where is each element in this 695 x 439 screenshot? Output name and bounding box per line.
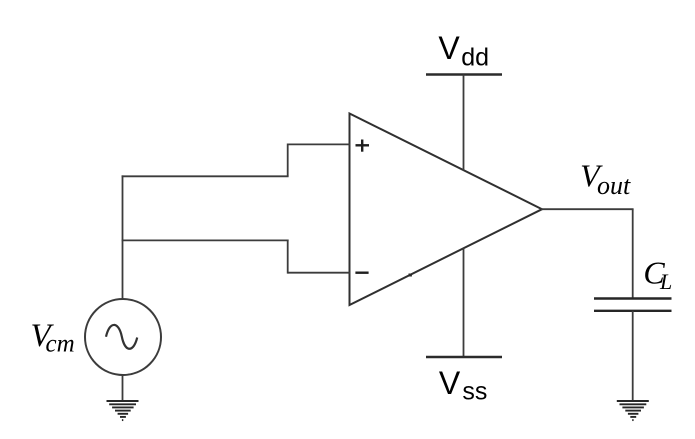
node artifact on lower edge bbox=[409, 274, 412, 277]
wire output vertical down to capacitor bbox=[632, 209, 634, 297]
svg-text:dd: dd bbox=[461, 44, 489, 72]
wire source to ground bbox=[122, 375, 124, 401]
svg-text:cm: cm bbox=[46, 331, 75, 358]
ground (load) bbox=[617, 401, 649, 420]
wire lower horizontal from source bbox=[122, 239, 289, 241]
svg-text:ss: ss bbox=[462, 378, 487, 406]
pin + (non-inverting input marker) bbox=[356, 140, 370, 152]
svg-text:V: V bbox=[439, 365, 461, 401]
wire capacitor to ground bbox=[632, 311, 634, 401]
wire + input vertical jog bbox=[287, 144, 289, 177]
Vss supply rail bar bbox=[426, 356, 502, 358]
capacitor CL top plate bbox=[594, 297, 672, 299]
wire + input horizontal into op-amp bbox=[288, 143, 350, 145]
wire left vertical from source bbox=[122, 175, 124, 299]
ground (source) bbox=[107, 401, 139, 420]
wire - input vertical jog bbox=[287, 240, 289, 274]
svg-text:L: L bbox=[659, 269, 672, 294]
wire - input horizontal into op-amp bbox=[288, 272, 350, 274]
op-amp U1 bbox=[350, 114, 543, 306]
voltage source Vcm bbox=[85, 299, 161, 375]
wire upper horizontal from source bbox=[122, 175, 289, 177]
wire op-amp to Vss rail bbox=[463, 248, 465, 357]
wire output horizontal bbox=[541, 208, 634, 210]
svg-text:out: out bbox=[597, 171, 631, 200]
sine symbol inside source bbox=[106, 325, 137, 349]
svg-text:V: V bbox=[438, 30, 460, 66]
Vdd supply rail bar bbox=[426, 73, 502, 75]
wire Vdd rail to op-amp bbox=[463, 75, 465, 171]
capacitor CL bottom plate bbox=[594, 310, 672, 312]
pin - (inverting input marker) bbox=[355, 272, 368, 274]
